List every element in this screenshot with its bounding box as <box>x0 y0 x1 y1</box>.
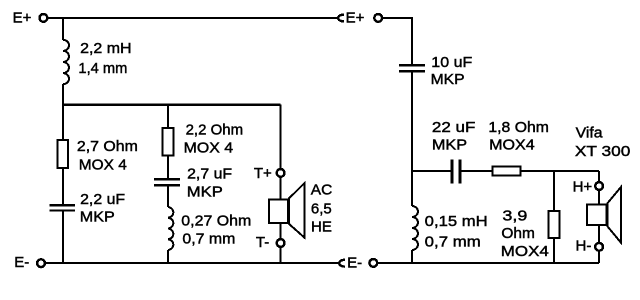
svg-text:E-: E- <box>347 254 362 271</box>
svg-text:HE: HE <box>311 219 332 236</box>
svg-text:6,5: 6,5 <box>311 200 332 217</box>
svg-text:E-: E- <box>14 254 29 271</box>
svg-text:1,8 Ohm: 1,8 Ohm <box>488 119 549 136</box>
svg-text:3,9: 3,9 <box>502 208 527 225</box>
svg-text:H+: H+ <box>573 178 593 195</box>
svg-text:1,4 mm: 1,4 mm <box>78 60 127 77</box>
svg-text:2,2 Ohm: 2,2 Ohm <box>186 121 244 138</box>
svg-text:0,7 mm: 0,7 mm <box>182 231 235 248</box>
svg-text:0,7 mm: 0,7 mm <box>425 233 481 250</box>
svg-text:XT 300: XT 300 <box>575 143 631 160</box>
svg-text:MOX 4: MOX 4 <box>184 140 234 157</box>
svg-text:E+: E+ <box>13 10 32 27</box>
svg-text:MKP: MKP <box>187 183 223 200</box>
svg-text:MOX 4: MOX 4 <box>79 157 127 174</box>
svg-text:E+: E+ <box>346 10 365 27</box>
svg-text:0,15 mH: 0,15 mH <box>425 213 488 230</box>
svg-text:10 uF: 10 uF <box>431 54 472 71</box>
svg-text:MOX4: MOX4 <box>489 137 535 154</box>
svg-text:2,2 uF: 2,2 uF <box>80 191 125 208</box>
svg-text:22 uF: 22 uF <box>432 119 476 136</box>
svg-text:MOX4: MOX4 <box>501 243 549 260</box>
svg-text:MKP: MKP <box>431 71 465 88</box>
svg-text:T+: T+ <box>254 165 272 182</box>
svg-text:MKP: MKP <box>80 209 115 226</box>
svg-text:2,2 mH: 2,2 mH <box>80 40 132 57</box>
svg-text:MKP: MKP <box>432 137 467 154</box>
svg-text:T-: T- <box>256 234 269 251</box>
svg-text:H-: H- <box>576 238 592 255</box>
svg-text:2,7 uF: 2,7 uF <box>187 166 232 183</box>
svg-text:Vifa: Vifa <box>576 125 604 142</box>
svg-text:2,7 Ohm: 2,7 Ohm <box>77 138 138 155</box>
svg-text:0,27 Ohm: 0,27 Ohm <box>181 212 251 229</box>
svg-text:Ohm: Ohm <box>501 225 535 242</box>
svg-text:AC: AC <box>311 182 333 199</box>
